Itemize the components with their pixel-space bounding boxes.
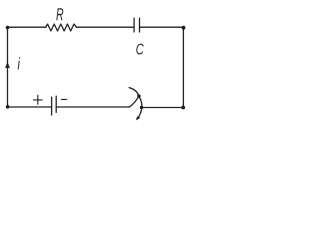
node top-left [6, 26, 10, 30]
label R [56, 8, 63, 20]
battery plate short (-) [55, 96, 57, 112]
switch arrowhead (down-left) [136, 116, 140, 120]
wire top right segment [140, 26, 184, 28]
battery plate long (+) [51, 97, 53, 115]
label C [136, 44, 144, 55]
switch motion arrow arc [129, 88, 142, 119]
wire bottom middle segment (battery to switch) [56, 106, 129, 108]
resistor R [46, 24, 77, 31]
capacitor C plate right [139, 18, 141, 32]
wire right vertical [182, 27, 184, 107]
switch fixed contact dot [140, 106, 143, 109]
battery + sign [33, 95, 42, 104]
wire top middle segment [76, 26, 133, 28]
wire bottom left segment [8, 106, 52, 108]
current arrowhead (up, on left wire) [5, 62, 10, 69]
node bottom-right [181, 106, 185, 110]
switch blade tip contact dot [137, 94, 140, 97]
switch blade [129, 96, 139, 107]
node bottom-left [6, 105, 10, 109]
wire left vertical [7, 27, 9, 107]
battery - sign [61, 98, 66, 100]
label i (current) [18, 57, 21, 69]
wire bottom right segment [142, 107, 184, 109]
node top-right [182, 26, 186, 30]
capacitor C plate left [133, 18, 135, 32]
wire top left segment [8, 26, 46, 28]
